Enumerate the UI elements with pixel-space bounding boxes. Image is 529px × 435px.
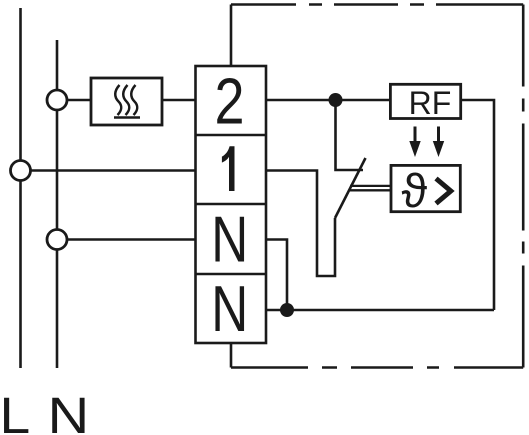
terminal block divider N/N xyxy=(196,273,267,276)
thermostat greater-than symbol xyxy=(436,179,451,204)
thermostat switch F1 fixed contact xyxy=(336,100,364,170)
terminal block divider 2/1 xyxy=(196,134,267,137)
wire terminal N to lower junction xyxy=(266,240,287,311)
wire L rail xyxy=(19,8,22,368)
wire terminal 2 to RF xyxy=(266,99,390,102)
svg-text:RF: RF xyxy=(409,85,452,121)
RF downlink arrow right xyxy=(433,127,444,158)
svg-text:N: N xyxy=(48,387,90,435)
terminal circle on N rail (heater feed) xyxy=(47,90,67,110)
wire N rail to heater xyxy=(57,99,91,102)
svg-text:N: N xyxy=(211,204,248,276)
enclosure bottom border (dash-dot) xyxy=(231,366,523,369)
terminal label 1 xyxy=(222,146,235,191)
junction dot node B xyxy=(280,303,294,317)
wire RF to right side down to N junction xyxy=(461,100,494,310)
wire heater to terminal 2 xyxy=(162,99,196,102)
wire terminal N lower to right side xyxy=(266,309,494,312)
heating load E1 box xyxy=(91,78,162,125)
terminal circle on N rail (lower) xyxy=(47,230,67,250)
wire N rail xyxy=(56,40,59,368)
wire L rail to terminal 1 xyxy=(21,169,196,172)
enclosure top border (dash-dot) xyxy=(231,3,523,6)
heating element squiggles xyxy=(114,85,140,118)
svg-text:2: 2 xyxy=(215,66,245,138)
thermostat box U2 xyxy=(391,165,460,211)
wire N rail to terminal N xyxy=(57,238,196,241)
svg-text:L: L xyxy=(0,387,30,435)
svg-text:N: N xyxy=(211,273,248,345)
mechanical link to thermostat xyxy=(350,185,391,187)
wire terminal 1 to switch arm xyxy=(266,171,335,277)
enclosure right border (dash-dot) xyxy=(522,5,525,368)
junction dot node A xyxy=(329,93,343,107)
svg-text:ϑ: ϑ xyxy=(402,164,428,217)
terminal block divider 1/N xyxy=(196,203,267,206)
enclosure left border bottom segment xyxy=(230,343,233,368)
terminal circle on L rail xyxy=(11,161,31,181)
RF downlink arrow left xyxy=(409,127,420,158)
RF receiver U1 box xyxy=(390,84,460,118)
thermostat switch F1 movable arm xyxy=(335,158,366,218)
enclosure left border top segment xyxy=(230,5,233,67)
terminal block outline xyxy=(196,66,267,343)
